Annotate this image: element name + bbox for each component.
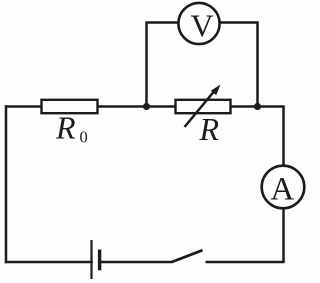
svg-text:R: R xyxy=(199,111,220,147)
svg-text:A: A xyxy=(270,172,294,208)
battery: long plate (+) xyxy=(90,240,92,279)
resistor R0 xyxy=(42,100,98,113)
wire: voltmeter branch xyxy=(147,23,258,107)
node junction right xyxy=(254,103,261,110)
svg-text:0: 0 xyxy=(80,128,88,147)
battery: gap in bottom wire xyxy=(93,258,99,266)
battery: short plate (-) xyxy=(98,250,101,271)
rheostat arrow xyxy=(185,91,215,127)
node junction left xyxy=(143,103,150,110)
rheostat R xyxy=(176,100,231,113)
wire: bottom horizontal xyxy=(5,261,285,264)
switch blade xyxy=(172,250,203,262)
svg-text:V: V xyxy=(190,7,213,43)
wire: right vertical xyxy=(282,107,285,263)
switch: gap in bottom wire xyxy=(173,258,206,266)
svg-text:R: R xyxy=(55,110,76,146)
voltmeter U-V xyxy=(178,3,219,44)
ammeter U-A xyxy=(262,166,305,209)
wire: left vertical xyxy=(5,105,8,263)
wire: top horizontal xyxy=(5,105,285,108)
